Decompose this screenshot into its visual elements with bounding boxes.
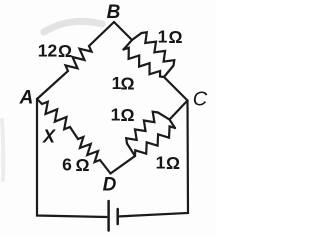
svg-text:Ω: Ω — [168, 27, 182, 47]
svg-text:1: 1 — [158, 27, 168, 47]
svg-text:A: A — [19, 88, 34, 109]
svg-text:12: 12 — [38, 41, 58, 61]
svg-text:1: 1 — [156, 153, 166, 173]
svg-text:D: D — [103, 175, 117, 196]
svg-text:Ω: Ω — [166, 153, 180, 173]
svg-text:Ω: Ω — [120, 74, 134, 94]
svg-text:C: C — [193, 89, 208, 111]
svg-text:B: B — [107, 2, 121, 23]
svg-text:Ω: Ω — [58, 41, 72, 61]
svg-text:6: 6 — [62, 155, 72, 175]
svg-text:1: 1 — [111, 105, 121, 125]
svg-text:Ω: Ω — [120, 105, 134, 125]
svg-text:Ω: Ω — [75, 155, 89, 175]
svg-text:X: X — [42, 126, 56, 146]
